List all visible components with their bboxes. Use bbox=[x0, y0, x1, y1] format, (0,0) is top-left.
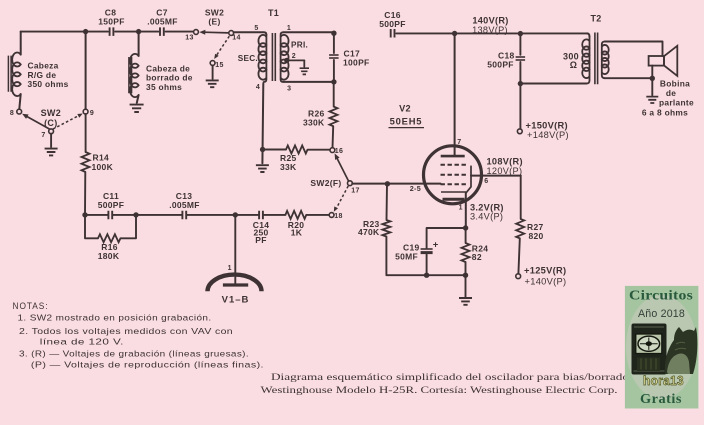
svg-text:500PF: 500PF bbox=[379, 19, 406, 29]
svg-text:Ω: Ω bbox=[570, 60, 578, 70]
wire C17 top stub bbox=[333, 33, 335, 53]
tube grid 1 row bbox=[441, 164, 468, 166]
svg-text:PRI.: PRI. bbox=[291, 41, 308, 50]
svg-text:1K: 1K bbox=[291, 228, 303, 238]
svg-text:línea de 120 V.: línea de 120 V. bbox=[40, 336, 124, 346]
svg-text:(E): (E) bbox=[208, 17, 220, 27]
junction C17 top bbox=[331, 31, 336, 36]
resistor R26 bbox=[330, 107, 338, 127]
terminal 13 bbox=[194, 30, 199, 35]
wire R20-term18 bbox=[306, 214, 329, 216]
tube V1-B arc bbox=[208, 275, 262, 292]
terminal 16 bbox=[330, 148, 335, 153]
wire head-term8 bbox=[19, 94, 20, 109]
svg-text:16: 16 bbox=[335, 148, 343, 155]
svg-text:3.4V(P): 3.4V(P) bbox=[470, 212, 503, 222]
capacitor C18 bbox=[516, 56, 526, 58]
svg-text:3. (R) — Voltajes de grabación: 3. (R) — Voltajes de grabación (líneas g… bbox=[19, 348, 249, 358]
svg-text:15: 15 bbox=[215, 62, 223, 69]
wire R25 right stub bbox=[308, 149, 330, 151]
ground SW2(E) bbox=[206, 80, 219, 87]
svg-text:V2: V2 bbox=[399, 103, 411, 113]
ground SW2(C) bbox=[45, 149, 58, 156]
svg-text:PF: PF bbox=[255, 235, 266, 245]
terminal 17 bbox=[348, 181, 353, 186]
wire 9 to R14 bbox=[85, 114, 87, 152]
wire C19 top run bbox=[427, 228, 466, 248]
wire R24 bottom bbox=[465, 262, 467, 275]
svg-text:hora13: hora13 bbox=[643, 373, 684, 388]
terminal 14 bbox=[229, 31, 234, 36]
wire pin6 to R27 bbox=[520, 176, 522, 219]
svg-text:7: 7 bbox=[457, 139, 461, 146]
switch SW2(E) blade bbox=[204, 31, 229, 34]
junction pin7 top bbox=[452, 31, 457, 36]
svg-text:9: 9 bbox=[90, 110, 94, 117]
wire grid to R23 bbox=[386, 184, 389, 220]
svg-text:33K: 33K bbox=[280, 162, 297, 172]
svg-text:.005MF: .005MF bbox=[169, 200, 200, 210]
wire left drop bbox=[20, 32, 22, 55]
wire top-left bus bbox=[21, 31, 108, 33]
svg-text:1: 1 bbox=[228, 265, 232, 272]
terminal +125V bbox=[516, 274, 521, 279]
junction C17 bottom bbox=[331, 79, 336, 84]
svg-text:Diagrama esquemático simplific: Diagrama esquemático simplificado del os… bbox=[271, 372, 629, 383]
resistor R20 bbox=[285, 211, 306, 219]
svg-text:138V(P): 138V(P) bbox=[472, 25, 508, 35]
svg-text:3: 3 bbox=[287, 86, 291, 93]
wire pin7 drop bbox=[454, 34, 456, 156]
svg-text:2. Todos los voltajes medidos: 2. Todos los voltajes medidos con VAV co… bbox=[19, 326, 233, 336]
wire T2 sec bottom bbox=[605, 77, 653, 79]
svg-text:Circuitos: Circuitos bbox=[629, 288, 693, 303]
svg-text:1: 1 bbox=[287, 25, 291, 32]
wire C7-term13 bbox=[166, 31, 194, 33]
svg-text:SW2(F): SW2(F) bbox=[310, 178, 341, 188]
switch SW2(F) dashed throw bbox=[337, 186, 349, 208]
svg-text:1: 1 bbox=[459, 205, 463, 212]
wire T1 pin4 drop bbox=[261, 84, 264, 163]
wire term7-ground bbox=[50, 134, 52, 147]
wire R26-term16 bbox=[332, 126, 335, 147]
wire C11-C13 bbox=[113, 214, 183, 216]
svg-text:.005MF: .005MF bbox=[147, 17, 178, 27]
junction top-left bbox=[83, 29, 88, 34]
svg-text:108V(R): 108V(R) bbox=[487, 156, 523, 166]
svg-text:5: 5 bbox=[254, 25, 258, 32]
svg-text:SEC.: SEC. bbox=[238, 54, 258, 63]
svg-text:4: 4 bbox=[256, 84, 260, 91]
terminal 8 bbox=[17, 109, 22, 114]
svg-text:13: 13 bbox=[185, 35, 193, 42]
wire erase-ground bbox=[137, 95, 139, 103]
junction V1-B tap bbox=[233, 212, 238, 217]
terminal 15 bbox=[210, 61, 215, 66]
svg-text:18: 18 bbox=[334, 213, 342, 220]
ground erase head bbox=[130, 105, 144, 112]
capacitor C11 bbox=[108, 211, 112, 220]
junction erase branch bbox=[136, 29, 141, 34]
capacitor C8 bbox=[110, 27, 114, 36]
head coil Cabeza de borrado bbox=[130, 54, 139, 97]
svg-text:+148V(P): +148V(P) bbox=[527, 130, 569, 140]
wire T1 pin1 to bus bbox=[283, 31, 334, 33]
terminal 9 bbox=[83, 109, 88, 114]
ground T1 pin4 bbox=[256, 165, 269, 172]
svg-text:470K: 470K bbox=[358, 227, 380, 237]
wire erase drop bbox=[138, 32, 140, 56]
switch SW2(C) dashed throw bbox=[53, 116, 79, 129]
T2 primary winding bbox=[587, 37, 590, 84]
ground speaker bbox=[646, 97, 658, 103]
junction C18 top bbox=[518, 31, 523, 36]
T1 primary winding bbox=[281, 32, 284, 82]
resistor R16 loop bbox=[85, 215, 98, 238]
capacitor C16 bbox=[391, 29, 395, 38]
ground T1 tap bbox=[303, 60, 305, 66]
wire C13-C14 bbox=[187, 214, 259, 216]
terminal 7 bbox=[49, 129, 54, 134]
wire speaker-ground bbox=[651, 66, 653, 96]
svg-text:Bobina: Bobina bbox=[660, 78, 690, 88]
wire to cathode ground bbox=[465, 275, 467, 296]
capacitor C17 bbox=[329, 54, 339, 56]
wire C18 bottom to term bbox=[519, 62, 521, 129]
svg-text:Gratis: Gratis bbox=[640, 391, 682, 406]
wire to C11 bbox=[85, 214, 108, 216]
wire C18 top stub bbox=[519, 34, 521, 55]
junction pin4/R25 bbox=[260, 147, 265, 152]
svg-text:parlante: parlante bbox=[659, 98, 694, 108]
capacitor C7 bbox=[160, 27, 164, 36]
svg-text:SW2: SW2 bbox=[41, 108, 61, 118]
wire R14-junction bbox=[84, 172, 86, 215]
wire 14-T1 pin5 bbox=[234, 32, 267, 35]
switch SW2(C) blade bbox=[26, 116, 50, 129]
capacitor C19 bbox=[421, 248, 433, 250]
resistor R27 bbox=[516, 219, 524, 239]
terminal +150V bbox=[517, 129, 522, 134]
wire R27-term bbox=[518, 239, 519, 274]
svg-text:14: 14 bbox=[232, 34, 240, 41]
T2 core bbox=[595, 33, 598, 85]
wire T2 primary bottom bbox=[520, 83, 586, 85]
svg-text:+: + bbox=[433, 240, 439, 251]
switch SW2(E) dashed throw bbox=[216, 36, 229, 56]
tube V2 envelope bbox=[424, 146, 482, 204]
junction C11 left bbox=[82, 212, 87, 217]
switch SW2(F) blade bbox=[337, 159, 348, 181]
wire T2 sec top to speaker bbox=[605, 42, 663, 57]
resistor R23 bbox=[382, 220, 390, 237]
svg-text:Año 2018: Año 2018 bbox=[638, 308, 685, 320]
wire C16-right bus bbox=[396, 32, 587, 34]
junction C19 bottom bbox=[424, 273, 429, 278]
svg-text:500PF: 500PF bbox=[487, 60, 514, 70]
svg-text:350 ohms: 350 ohms bbox=[28, 79, 69, 89]
resistor R24 bbox=[462, 243, 470, 262]
junction C11 right bbox=[133, 212, 138, 217]
tube pin 6 wire bbox=[471, 175, 521, 177]
tube grid 3 row bbox=[441, 183, 468, 185]
svg-text:+140V(P): +140V(P) bbox=[525, 277, 567, 287]
capacitor C13 bbox=[182, 211, 186, 220]
svg-text:330K: 330K bbox=[303, 117, 325, 127]
wire R23 bottom bbox=[386, 237, 465, 276]
watermark badge Circuitos hora13 bbox=[625, 286, 699, 409]
svg-text:T1: T1 bbox=[268, 8, 279, 18]
junction R24 bottom bbox=[463, 273, 468, 278]
wire C19 bottom stub bbox=[426, 253, 428, 275]
wire C14-R20 bbox=[263, 214, 285, 216]
ground cathode bbox=[459, 298, 472, 305]
T1 secondary winding bbox=[263, 35, 266, 84]
wire C17 bottom stub bbox=[333, 60, 335, 82]
svg-text:Westinghouse Modelo H-25R. Cor: Westinghouse Modelo H-25R. Cortesía: Wes… bbox=[261, 385, 618, 396]
head coil Cabeza R/G bbox=[12, 53, 21, 97]
svg-text:500PF: 500PF bbox=[98, 200, 125, 210]
tube screen link bbox=[466, 166, 471, 192]
svg-text:820: 820 bbox=[529, 231, 544, 241]
speaker bbox=[649, 56, 664, 66]
wire T1 pin3 to C17 bbox=[283, 81, 334, 83]
junction speaker bbox=[650, 76, 655, 81]
svg-text:V1–B: V1–B bbox=[222, 295, 250, 306]
junction grid/R23 bbox=[385, 181, 390, 186]
svg-text:82: 82 bbox=[472, 252, 482, 262]
svg-text:+125V(R): +125V(R) bbox=[524, 265, 566, 275]
wire V1-B drop bbox=[234, 215, 236, 285]
svg-text:T2: T2 bbox=[590, 13, 601, 23]
svg-text:17: 17 bbox=[351, 188, 359, 195]
wire bus to T2 bbox=[587, 33, 590, 36]
tube cathode bbox=[441, 191, 466, 193]
junction cathode/C19 bbox=[463, 225, 468, 230]
svg-text:120V(P): 120V(P) bbox=[487, 166, 523, 176]
svg-text:2: 2 bbox=[292, 53, 296, 60]
resistor R25 bbox=[286, 146, 308, 154]
tube plate bbox=[441, 155, 465, 158]
svg-text:35 ohms: 35 ohms bbox=[146, 82, 182, 92]
svg-text:(P) — Voltajes de reproducción: (P) — Voltajes de reproducción (líneas f… bbox=[31, 360, 264, 370]
svg-text:100PF: 100PF bbox=[343, 57, 370, 67]
tube cathode wire bbox=[465, 192, 467, 226]
svg-text:1. SW2 mostrado en posición gr: 1. SW2 mostrado en posición grabación. bbox=[18, 313, 212, 323]
svg-text:7: 7 bbox=[41, 132, 45, 139]
wire R25 left stub bbox=[262, 149, 286, 151]
wire C8-C7 bbox=[115, 31, 158, 33]
wire to R26 bbox=[333, 82, 335, 107]
svg-text:2-5: 2-5 bbox=[410, 184, 421, 193]
wire term15-ground bbox=[212, 65, 214, 78]
svg-text:50EH5: 50EH5 bbox=[390, 116, 423, 127]
wire bus drop to 9 bbox=[85, 32, 87, 110]
svg-text:6: 6 bbox=[484, 178, 488, 185]
svg-text:150PF: 150PF bbox=[98, 17, 125, 27]
wire cathode to R24 bbox=[465, 226, 467, 243]
capacitor C14 bbox=[259, 211, 263, 220]
svg-text:100K: 100K bbox=[92, 162, 114, 172]
terminal 18 bbox=[329, 213, 334, 218]
T1 core bbox=[272, 33, 275, 81]
svg-text:6 a 8 ohms: 6 a 8 ohms bbox=[642, 108, 688, 118]
tube grid 2 row bbox=[441, 174, 468, 176]
junction C18/T2 bbox=[518, 81, 523, 86]
svg-text:50MF: 50MF bbox=[395, 251, 418, 261]
svg-text:8: 8 bbox=[10, 110, 14, 117]
T2 secondary winding bbox=[602, 42, 605, 79]
wire 17 to grid bbox=[352, 183, 440, 185]
resistor R14 bbox=[82, 152, 90, 172]
tube V1-B grid bar bbox=[223, 283, 248, 286]
svg-text:180K: 180K bbox=[98, 251, 120, 261]
svg-text:NOTAS:: NOTAS: bbox=[13, 301, 49, 311]
